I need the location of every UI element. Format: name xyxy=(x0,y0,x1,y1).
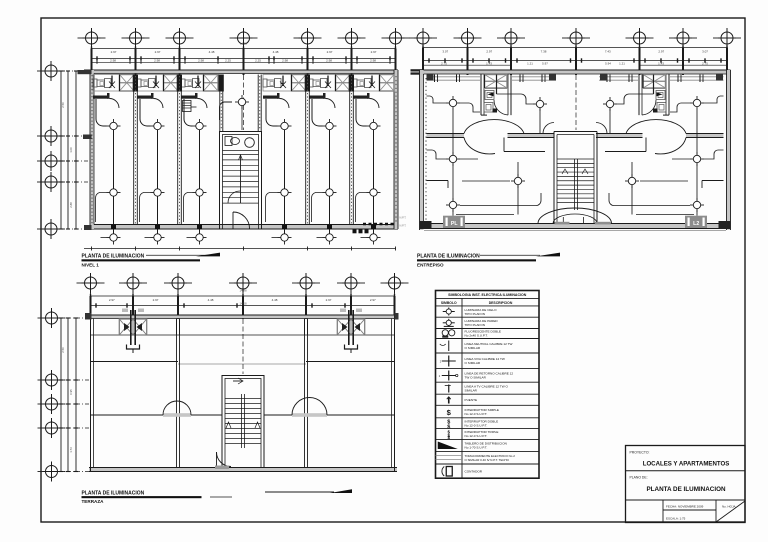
svg-text:7.43: 7.43 xyxy=(605,49,611,53)
legend header xyxy=(441,293,527,305)
door leaf xyxy=(93,93,110,99)
svg-text:TIPO PLAFON: TIPO PLAFON xyxy=(465,323,485,327)
wire drop to luminaire xyxy=(96,99,107,126)
luminaire xyxy=(151,186,165,200)
luminaire xyxy=(603,97,617,111)
partition wall plan3 xyxy=(305,319,308,468)
svg-text:ENTREPISO: ENTREPISO xyxy=(417,262,444,267)
bathroom wire drop xyxy=(488,75,497,97)
stair shaft plan1 xyxy=(220,132,262,230)
luminaire xyxy=(690,198,704,212)
svg-text:4.48: 4.48 xyxy=(209,50,215,54)
fluorescent fixture xyxy=(120,75,135,92)
grid bubble 3-5 xyxy=(292,273,320,293)
luminaire wire down xyxy=(157,126,159,238)
wire elbow lower xyxy=(312,193,323,223)
corner stub tr xyxy=(395,313,399,320)
svg-text:2.50: 2.50 xyxy=(61,102,65,108)
svg-text:SIMILAR: SIMILAR xyxy=(465,388,478,392)
wire drop to luminaire xyxy=(356,99,367,126)
bathroom fluorescent xyxy=(643,75,666,89)
stairs plan3 xyxy=(225,378,261,448)
partition wall xyxy=(178,75,182,225)
svg-text:2.97: 2.97 xyxy=(109,298,115,302)
lower room wall xyxy=(427,181,449,189)
roof fan symbol xyxy=(119,309,146,354)
legend row12 tablero xyxy=(438,442,458,450)
left dim line plan3 xyxy=(75,318,77,472)
dim line row1 plan2 xyxy=(423,47,727,49)
plan1 title xyxy=(82,253,221,268)
svg-text:2.75: 2.75 xyxy=(441,61,447,65)
switch drop xyxy=(109,76,115,89)
wall stub left mid plan1 xyxy=(83,135,92,140)
luminaire stair bay xyxy=(235,95,249,109)
counter symbol xyxy=(353,79,371,88)
stair door arc xyxy=(233,212,250,229)
switch drop xyxy=(195,76,201,89)
small room walls xyxy=(605,138,646,152)
canopy line plan3 xyxy=(91,334,395,336)
luminaire xyxy=(323,186,337,200)
small room walls xyxy=(504,138,545,152)
wire tail xyxy=(272,237,278,239)
bathroom shelf line xyxy=(484,88,508,90)
corridor wall band xyxy=(427,134,555,138)
bathroom door arc xyxy=(642,100,656,115)
wire tail xyxy=(361,237,367,239)
svg-text:NIVEL 1: NIVEL 1 xyxy=(82,262,100,267)
legend row2 luminaria pared xyxy=(443,319,455,327)
door leaf xyxy=(263,93,280,99)
left dim line plan1 xyxy=(75,71,77,229)
grid line stub xyxy=(135,44,137,49)
counter symbol xyxy=(263,79,281,88)
grid bubble 1-2 xyxy=(122,28,150,48)
grid stub xyxy=(58,471,89,473)
svg-text:FECHA: NOVIEMBRE 2009: FECHA: NOVIEMBRE 2009 xyxy=(666,505,704,509)
luminaire xyxy=(690,152,704,166)
fluorescent fixture xyxy=(380,75,395,92)
right wall plan1 xyxy=(394,70,398,229)
svg-text:PLANTA DE ILUMINACION: PLANTA DE ILUMINACION xyxy=(646,486,726,493)
grid bubble 1-L5 xyxy=(37,219,65,239)
svg-text:2.97: 2.97 xyxy=(153,298,159,302)
grid bubble 1-7 xyxy=(382,28,410,48)
wall stub left plan1 xyxy=(78,70,92,74)
band wire xyxy=(371,83,372,85)
stairs plan1 xyxy=(223,155,259,204)
grid line stub xyxy=(726,44,728,48)
grid bubble 3-L1 xyxy=(38,308,66,328)
corridor wall band xyxy=(596,134,724,138)
grid bubble 2-5 xyxy=(626,28,654,48)
corner block bl xyxy=(420,221,432,229)
svg-text:3.07: 3.07 xyxy=(442,49,448,53)
luminaire xyxy=(193,119,207,133)
luminaire xyxy=(278,186,292,200)
grid line stub xyxy=(57,181,90,183)
luminaire wire down xyxy=(113,126,115,238)
grid line stub xyxy=(575,44,577,48)
corridor end door arc xyxy=(543,123,554,134)
grid line stub xyxy=(57,135,90,137)
door swing arc xyxy=(280,99,290,109)
grid stub xyxy=(58,427,89,429)
svg-text:14.88: 14.88 xyxy=(240,42,247,46)
switch drop xyxy=(280,76,286,89)
corner stub tl xyxy=(85,313,92,320)
plan3 title xyxy=(82,489,353,504)
grid dash below wall xyxy=(510,75,512,92)
unit 3 storefront band xyxy=(181,75,218,92)
bottom wall plan3 xyxy=(89,468,397,472)
grid line stub xyxy=(57,70,90,72)
plan1 group xyxy=(37,28,410,239)
door swing arc xyxy=(198,99,208,109)
plan3 group xyxy=(38,273,409,482)
grid line stub xyxy=(395,44,397,49)
stair shaft plan3 xyxy=(222,376,264,468)
dim line row1 plan3 xyxy=(91,295,395,297)
sink xyxy=(656,91,665,100)
door swing arc xyxy=(326,99,336,109)
window band plan2 xyxy=(427,75,724,83)
grid bubble 2-6 xyxy=(669,28,697,48)
grid bubble 3-L4 xyxy=(38,418,66,438)
svg-text:2.97: 2.97 xyxy=(658,49,664,53)
upper area line plan3 xyxy=(91,362,395,365)
bathroom door arc xyxy=(494,100,508,115)
grid line stub xyxy=(91,44,93,49)
luminaire xyxy=(446,96,460,110)
sink xyxy=(485,91,494,100)
unit 4 storefront band xyxy=(263,75,306,92)
svg-text:No 1-70 S.U.P.T.: No 1-70 S.U.P.T. xyxy=(465,446,488,450)
grid bubble 3-1 xyxy=(77,273,105,293)
svg-text:PLANO DE:: PLANO DE: xyxy=(630,476,648,480)
grid line stub xyxy=(510,44,512,48)
grid bubble 3-7 xyxy=(381,273,409,293)
svg-text:2.88: 2.88 xyxy=(69,202,73,208)
grid line stub xyxy=(179,44,181,49)
svg-text:TW O SIMILAR: TW O SIMILAR xyxy=(465,376,487,380)
storefront divider bar xyxy=(349,75,354,92)
wire tail xyxy=(145,237,151,239)
storefront divider bar xyxy=(305,75,310,92)
unit 6 storefront band xyxy=(353,75,394,92)
svg-text:2.97: 2.97 xyxy=(155,50,161,54)
junction box xyxy=(282,225,287,230)
counter symbol xyxy=(137,79,155,88)
junction box xyxy=(371,225,376,230)
band wire xyxy=(327,83,328,85)
svg-text:2.97: 2.97 xyxy=(111,50,117,54)
svg-text:No 12-0 S.U.P.T.: No 12-0 S.U.P.T. xyxy=(465,412,488,416)
legend row8 puente xyxy=(447,397,451,404)
fluorescent fixture xyxy=(292,75,307,92)
grid line stub xyxy=(639,44,641,48)
grid bubble 3-2 xyxy=(119,273,147,293)
svg-text:O SIMILAR 0.40 S/ N.P.T. TECHO: O SIMILAR 0.40 S/ N.P.T. TECHO xyxy=(465,458,510,462)
right wall plan3 xyxy=(394,315,396,472)
stair door arc plan3 xyxy=(215,452,231,469)
bottom dim line plan1 xyxy=(84,248,396,250)
dim line row1 plan1 xyxy=(92,48,396,50)
grid line stub xyxy=(350,289,352,296)
door arc right plan3 xyxy=(292,398,327,417)
grid line stub xyxy=(351,44,353,49)
legend table frame xyxy=(436,291,540,479)
wire elbow lower xyxy=(356,193,367,223)
band wire xyxy=(198,83,199,85)
svg-text:PUENTE: PUENTE xyxy=(465,398,478,402)
svg-text:4.48: 4.48 xyxy=(208,298,214,302)
svg-text:No 12-0 S.U.P.T.: No 12-0 S.U.P.T. xyxy=(465,434,488,438)
bathroom wire drop xyxy=(654,75,663,97)
svg-text:2.97: 2.97 xyxy=(327,50,333,54)
legend row5 linea viva xyxy=(440,356,456,367)
legend row7 linea tv xyxy=(445,385,451,393)
luminaire xyxy=(107,186,121,200)
ladder symbol unit3 xyxy=(183,101,197,112)
door leaf xyxy=(181,93,198,99)
right wall plan2 xyxy=(727,70,731,230)
svg-text:N.P.T.: N.P.T. xyxy=(400,224,407,228)
dashed wall segment bottom right xyxy=(363,223,395,226)
legend row4 linea neutral xyxy=(440,341,449,352)
toilet plan1 xyxy=(225,137,240,146)
legend row6 linea retorno xyxy=(439,371,458,381)
luminaire below wall xyxy=(193,231,207,245)
svg-text:O SIMILAR: O SIMILAR xyxy=(465,361,481,365)
svg-text:$: $ xyxy=(447,435,450,440)
grid line stub xyxy=(132,289,134,296)
dim line row2 plan3 xyxy=(91,305,395,307)
wire tail xyxy=(101,237,107,239)
grid line stub xyxy=(305,289,307,296)
grid bubble 2-2 xyxy=(454,28,482,48)
svg-text:PLANTA DE ILUMINACION: PLANTA DE ILUMINACION xyxy=(82,254,145,260)
luminaire xyxy=(625,174,639,188)
short partition stair bay left xyxy=(219,75,224,132)
door jamb block xyxy=(653,109,658,113)
bathroom shelf line xyxy=(642,88,666,90)
left dim line plan1 xyxy=(60,71,62,229)
luminaire wire down xyxy=(373,126,375,238)
grid bubble 1-1 xyxy=(78,28,106,48)
luminaire below wall xyxy=(278,231,292,245)
svg-text:O SIMILAR: O SIMILAR xyxy=(465,346,481,350)
luminaire xyxy=(367,186,381,200)
grid bubble 2-3 xyxy=(497,28,525,48)
stair shaft plan2 xyxy=(554,132,597,224)
counter symbol xyxy=(93,79,111,88)
wire drop to luminaire xyxy=(266,99,278,126)
L2 panel box xyxy=(685,216,707,228)
unit 5 storefront band xyxy=(309,75,350,92)
svg-text:PL: PL xyxy=(451,221,458,227)
svg-text:4.48: 4.48 xyxy=(273,50,279,54)
svg-text:PLANTA DE ILUMINACION: PLANTA DE ILUMINACION xyxy=(417,254,480,260)
luminaire wire down xyxy=(329,126,331,238)
wires xyxy=(427,94,542,216)
legend row10 interruptor doble xyxy=(447,420,450,431)
apartment left bathroom walls xyxy=(481,74,511,115)
svg-text:2.50: 2.50 xyxy=(61,347,65,353)
dim terminator left xyxy=(411,69,423,75)
svg-text:No 2x40 S.U.P.T.: No 2x40 S.U.P.T. xyxy=(465,334,488,338)
toilet xyxy=(657,103,666,113)
grid bubble 1-6 xyxy=(338,28,366,48)
landing arc plan2 xyxy=(538,208,612,224)
switch drop xyxy=(153,76,159,89)
luminaire xyxy=(323,119,337,133)
svg-text:5.97: 5.97 xyxy=(542,61,548,65)
svg-text:TIPO PLAFON: TIPO PLAFON xyxy=(465,312,485,316)
svg-text:DESCRIPCION: DESCRIPCION xyxy=(489,301,513,305)
grid bubble 1-3 xyxy=(166,28,194,48)
svg-text:SIMBOLO: SIMBOLO xyxy=(441,301,457,305)
corridor door arc up xyxy=(464,120,524,134)
luminaire below wall xyxy=(107,231,121,245)
wire drop to luminaire xyxy=(312,99,323,126)
apartment right bathroom walls xyxy=(639,74,669,115)
wire tail xyxy=(317,237,323,239)
junction box xyxy=(327,225,332,230)
grid stub xyxy=(58,403,89,405)
roof fan symbol xyxy=(337,309,364,354)
junction box xyxy=(155,225,160,230)
svg-text:L2: L2 xyxy=(693,221,699,227)
grid dash center plan2 xyxy=(575,75,577,130)
band wire xyxy=(155,83,156,85)
stairs plan2 xyxy=(557,159,594,210)
band wire xyxy=(111,83,112,85)
luminaire xyxy=(511,174,525,188)
svg-text:ESCALA: 1:75: ESCALA: 1:75 xyxy=(666,517,686,521)
svg-text:14.58: 14.58 xyxy=(240,301,247,305)
corridor end door arc xyxy=(596,123,607,134)
top wall plan1 xyxy=(84,70,398,74)
grid line stub xyxy=(682,44,684,48)
svg-text:1.00: 1.00 xyxy=(69,147,73,153)
wire drop to luminaire xyxy=(140,99,151,126)
wire elbow lower xyxy=(140,193,151,223)
luminaire xyxy=(446,152,460,166)
legend row3 fluorescente xyxy=(442,330,455,338)
wall stub upper xyxy=(305,319,308,336)
luminaire below wall xyxy=(151,231,165,245)
luminaire xyxy=(690,96,704,110)
partition wall xyxy=(306,75,310,225)
partition wall plan3 xyxy=(177,319,180,468)
svg-text:0.95: 0.95 xyxy=(69,389,73,395)
svg-text:No. HOJA: No. HOJA xyxy=(722,505,736,509)
svg-text:7.38: 7.38 xyxy=(541,49,547,53)
grid bubble 3-4 xyxy=(229,273,257,293)
grid bubble 3-L3 xyxy=(38,394,66,414)
lower room wall xyxy=(702,181,724,189)
svg-text:LOCALES Y APARTAMENTOS: LOCALES Y APARTAMENTOS xyxy=(643,461,730,468)
svg-text:1.21: 1.21 xyxy=(527,61,533,65)
partition wall xyxy=(134,75,138,225)
svg-text:3.07: 3.07 xyxy=(702,49,708,53)
grid dash below wall xyxy=(638,75,640,92)
grid bubble 3-L5 xyxy=(38,462,66,482)
corridor door arc down xyxy=(464,138,495,154)
grid stub xyxy=(58,317,89,319)
door swing arc xyxy=(154,99,164,109)
left dim line plan1 xyxy=(67,71,69,229)
partition wall xyxy=(350,75,354,225)
title block diagonal xyxy=(716,501,745,522)
grid bubble 1-L4 xyxy=(37,172,65,192)
grid line stub xyxy=(57,160,90,162)
grid bubble 1-L2 xyxy=(37,126,65,146)
svg-text:No 12-0 S.U.P.T.: No 12-0 S.U.P.T. xyxy=(465,423,488,427)
luminaire xyxy=(533,97,547,111)
svg-text:N.P.T.: N.P.T. xyxy=(400,216,407,220)
grid bubble 3-3 xyxy=(164,273,192,293)
door jamb block xyxy=(493,109,498,113)
grid bubble 1-L1 xyxy=(37,61,65,81)
storefront divider bar xyxy=(177,75,182,92)
grid line stub xyxy=(243,44,245,49)
grid bubble 1-4 xyxy=(230,28,258,48)
luminaire xyxy=(193,186,207,200)
left wall plan2 xyxy=(420,70,424,230)
dim line row3 plan1 xyxy=(92,61,396,63)
svg-text:CONTADOR: CONTADOR xyxy=(465,469,483,473)
grid bubble 2-1 xyxy=(409,28,437,48)
svg-text:1.43: 1.43 xyxy=(658,61,664,65)
svg-text:14.88: 14.88 xyxy=(240,289,247,293)
legend row11 interruptor triple xyxy=(447,429,450,440)
wire tail xyxy=(187,237,193,239)
legend row1 luminaria cielo xyxy=(443,308,455,316)
luminaire wire down xyxy=(284,126,286,238)
left dim line plan3 xyxy=(60,318,62,472)
luminaire xyxy=(446,198,460,212)
svg-text:5.94: 5.94 xyxy=(605,61,611,65)
svg-text:2.97: 2.97 xyxy=(371,50,377,54)
PL panel box xyxy=(443,216,465,228)
switch drop xyxy=(325,76,331,89)
stair bay luminaire xyxy=(219,102,232,120)
corridor door arc down xyxy=(655,138,686,154)
grid bubble 2-4 xyxy=(562,28,590,48)
junction box xyxy=(197,225,202,230)
band wire xyxy=(281,83,283,85)
svg-text:SIMBOLOGIA INST. ELECTRICA ILU: SIMBOLOGIA INST. ELECTRICA ILUMINACION xyxy=(448,293,527,297)
counter symbol xyxy=(181,79,199,88)
wall stub upper xyxy=(177,319,180,336)
dim line row2 plan1 xyxy=(92,58,396,60)
grid bubble 3-L2 xyxy=(38,370,66,390)
sink plan1 xyxy=(245,138,255,148)
dim line row2 plan2 xyxy=(423,60,727,62)
svg-text:2.97: 2.97 xyxy=(326,298,332,302)
storefront divider bar xyxy=(133,75,138,92)
luminaire xyxy=(107,119,121,133)
luminaire below wall xyxy=(323,231,337,245)
pier blocks plan2 xyxy=(427,74,434,81)
switch drop xyxy=(369,76,375,89)
top wall plan3 xyxy=(88,315,397,319)
junction squares row xyxy=(353,230,369,234)
svg-text:1.73: 1.73 xyxy=(69,447,73,453)
